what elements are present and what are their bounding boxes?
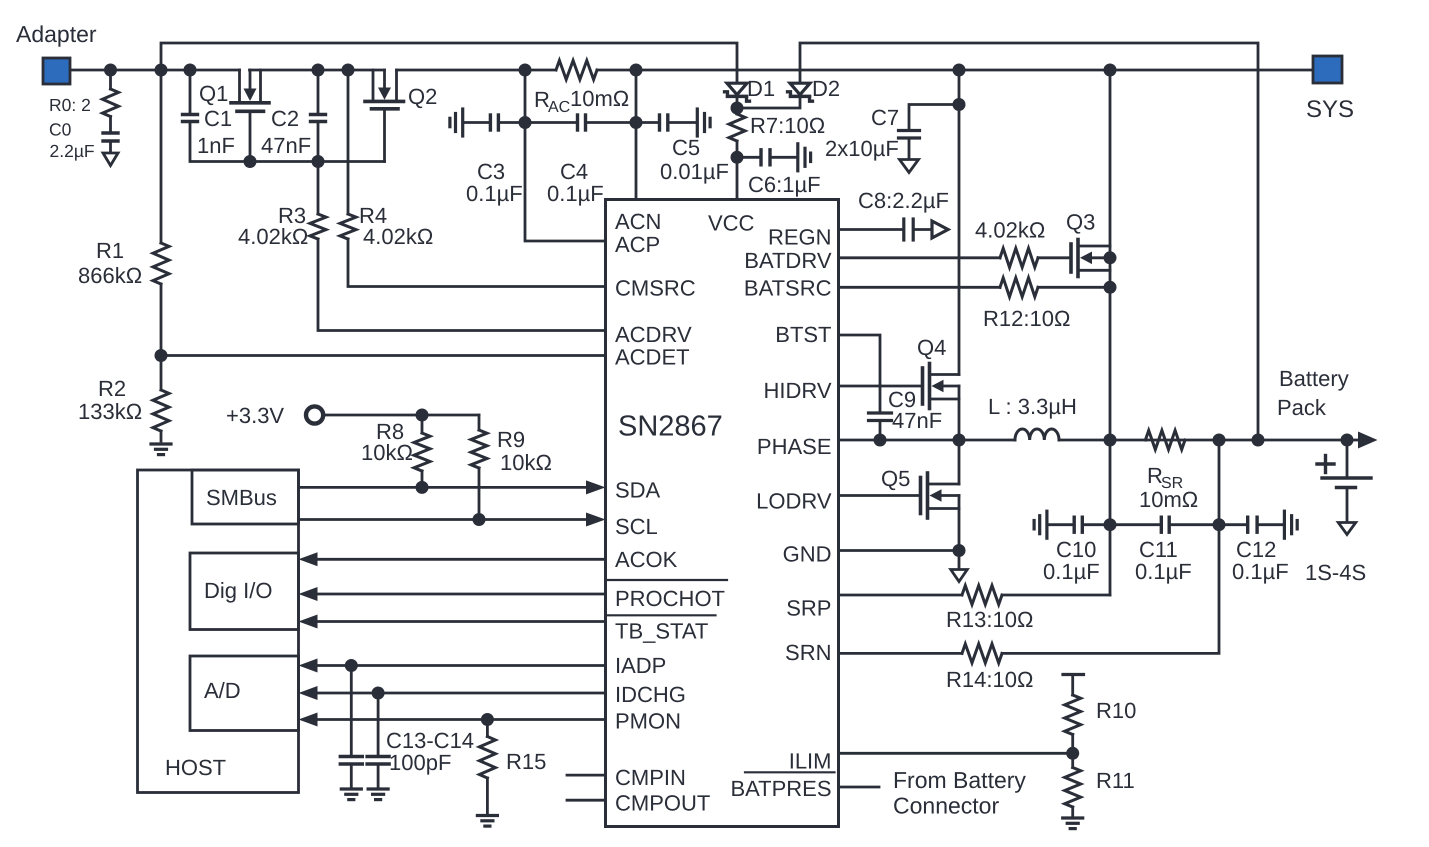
wire C3 node lead [500,121,525,124]
capacitor C1 [183,115,198,122]
resistor R11 [1065,753,1081,815]
wire C8 right lead [915,228,932,231]
resistor R15 [479,720,495,814]
label R8 value [361,440,413,465]
svg-text:C7: C7 [871,105,899,130]
node PHASE/Q4-Q5 [953,434,966,447]
wire Q4 source to PHASE [958,386,961,440]
wire Q3 column (bus to battery rail) [1109,70,1112,595]
wire Q2 to RAC (main bus segment 3) [397,69,557,72]
resistor R4 [340,214,356,239]
svg-text:C8:2.2µF: C8:2.2µF [858,188,949,213]
label 47nF [261,133,311,158]
transistor Q4 source stub [930,398,960,401]
pin label TB_STAT [615,619,708,644]
label D1 [747,76,775,101]
wire Q5 source to GND node [958,496,961,551]
node adapter/R0 [104,64,117,77]
wire R4 top lead [347,70,350,214]
capacitor C14 [367,693,389,787]
pin label PROCHOT [615,586,725,611]
svg-text:Adapter: Adapter [16,21,97,47]
transistor Q4 channel bar [928,364,932,409]
block Dig I/O [190,553,299,630]
label R0: 2 [49,95,91,115]
wire PMON net [299,713,606,727]
capacitor C10 [1074,517,1082,532]
arrow into SDA pin [586,480,606,494]
svg-text:R10: R10 [1096,698,1136,723]
resistor R10 [1063,675,1084,754]
label Q1 [199,81,228,106]
label C12 value [1232,559,1289,584]
ground (open arrow) power ground [951,570,968,582]
pin label ACDRV [615,322,692,347]
label C1 [204,106,232,131]
node IDCHG/C14 [372,687,385,700]
svg-text:AC: AC [548,99,570,116]
pin label IADP [615,653,666,678]
svg-text:ACN: ACN [615,209,661,234]
svg-text:TB_STAT: TB_STAT [615,619,708,644]
label C10 [1056,537,1096,562]
transistor Q2 drain contact [395,70,398,100]
svg-text:866kΩ: 866kΩ [78,263,142,288]
label Dig I/O [204,578,272,603]
svg-text:C2: C2 [271,106,299,131]
transistor Q3 channel bar [1076,240,1080,277]
svg-text:L : 3.3µH: L : 3.3µH [988,394,1077,419]
ground below C14 [368,789,388,800]
wire to Q3 gate [1038,256,1071,259]
svg-text:ACOK: ACOK [615,547,678,572]
capacitor C3 [490,115,498,130]
label 1nF [197,133,235,158]
svg-text:C1: C1 [204,106,232,131]
svg-text:10mΩ: 10mΩ [570,86,629,111]
transistor Q1 channel bar [231,101,269,105]
diode D2 [788,83,813,101]
svg-text:SDA: SDA [615,478,661,503]
svg-text:2x10µF: 2x10µF [825,136,899,161]
svg-text:Q3: Q3 [1066,210,1095,235]
node GND/Q5 source [953,544,966,557]
wire battery rail [1059,439,1347,442]
wire C7 branch [909,105,959,129]
svg-text:Pack: Pack [1277,395,1327,420]
wire PROCHOT net [299,587,606,601]
block A/D [190,656,299,731]
svg-text:From Battery: From Battery [893,767,1026,793]
svg-text:R7:10Ω: R7:10Ω [750,113,825,138]
resistor R0 [103,89,119,117]
label Q4 [917,335,946,360]
wire D2 cathode to D1 [737,96,800,108]
svg-text:R9: R9 [497,427,525,452]
svg-text:Q2: Q2 [408,84,437,109]
node R1/R2/ACDET [155,349,168,362]
label From Battery Connector [893,767,1026,819]
svg-text:0.1µF: 0.1µF [1135,559,1192,584]
svg-text:BTST: BTST [775,322,831,347]
wire C10 ground lead [1048,523,1073,526]
svg-text:LODRV: LODRV [756,489,832,514]
node rail/RSR right [1213,434,1226,447]
capacitor C6 [761,150,770,165]
transistor Q4 body arrow [932,380,960,393]
label C2 [271,106,299,131]
resistor 4.02k (Q3 gate) [1000,248,1038,267]
pin label ACN [615,209,661,234]
wire C2 bottom lead [317,123,320,162]
label C0 [49,120,72,140]
wire C2 top lead [317,70,320,112]
node rail/Q3 column [1104,434,1117,447]
svg-text:R12:10Ω: R12:10Ω [983,306,1070,331]
capacitor C8 [904,219,913,240]
wire BATPRES stub [839,786,880,789]
svg-text:Connector: Connector [893,793,999,819]
pin label CMSRC [615,276,696,301]
wire BATSRC lead [839,286,1001,289]
wire top bus right (SYS rail to D2 and battery rail) [800,43,1258,440]
node ILIM/R10/R11 [1066,747,1079,760]
label C11 value [1135,559,1192,584]
pin label CMPOUT [615,791,710,816]
resistor R8 [414,415,430,487]
svg-text:IDCHG: IDCHG [615,682,686,707]
label C4 value [547,181,604,206]
label R11 [1096,768,1135,793]
transistor Q5 gate bar [919,478,923,514]
transistor Q1 source contact [238,70,241,102]
wire R13 to sense node [1002,594,1110,597]
svg-text:Q5: Q5 [881,466,910,491]
label Q5 [881,466,910,491]
svg-text:VCC: VCC [708,211,755,236]
svg-text:4.02kΩ: 4.02kΩ [975,218,1045,243]
label C11 [1139,537,1178,562]
svg-text:1S-4S: 1S-4S [1305,560,1366,585]
node SDA/R8 [416,481,429,494]
label R2 [98,376,126,401]
label R9 value [500,450,552,475]
label Battery Pack [1277,366,1349,420]
node bus/ACP [519,64,532,77]
svg-text:0.1µF: 0.1µF [466,181,523,206]
capacitor C11 [1161,517,1169,532]
pin label SRP [786,596,831,621]
svg-text:CMSRC: CMSRC [615,276,696,301]
svg-text:133kΩ: 133kΩ [78,399,142,424]
svg-text:REGN: REGN [768,225,832,250]
pin label BATSRC [744,276,832,301]
svg-text:0.01µF: 0.01µF [660,159,729,184]
label C7 value [825,136,899,161]
wire ILIM lead [839,752,1073,755]
svg-text:BATPRES: BATPRES [730,776,831,801]
svg-text:CMPOUT: CMPOUT [615,791,710,816]
svg-text:0.1µF: 0.1µF [1043,559,1100,584]
svg-text:R14:10Ω: R14:10Ω [946,667,1033,692]
label R3 [278,203,306,228]
wire D1 cathode [736,96,739,108]
svg-text:4.02kΩ: 4.02kΩ [238,224,308,249]
svg-text:Q1: Q1 [199,81,228,106]
wire Q5 drain to PHASE [958,440,961,484]
svg-text:SRP: SRP [786,596,831,621]
svg-text:ILIM: ILIM [789,749,832,774]
ground below R15 [477,816,497,827]
wire R7 top lead [736,108,739,114]
svg-text:10kΩ: 10kΩ [500,450,552,475]
wire R3 top lead [317,162,320,215]
label 866k [78,263,142,288]
wire CMPIN stub [567,774,606,777]
pin label LODRV [756,489,832,514]
svg-text:R11: R11 [1096,768,1135,793]
node R7/C6/VCC [731,151,744,164]
transistor Q2 channel bar [365,100,404,104]
transistor Q1 body arrow [244,70,257,101]
label C13-C14 [386,728,474,753]
resistor R1 [153,243,169,284]
svg-text:SN2867: SN2867 [618,411,723,443]
svg-text:2.2µF: 2.2µF [50,141,95,161]
wire R12 to Q3 source [1038,286,1110,289]
wire LODRV lead [839,494,921,497]
svg-text:PHASE: PHASE [757,434,832,459]
ground (open arrow) below C7 [900,160,919,173]
label R13 value [946,607,1033,632]
svg-text:IADP: IADP [615,653,666,678]
wire C4 right lead [587,121,636,124]
node rail/Q1 [244,155,257,168]
diode D1 [725,83,750,101]
node rail/C2/R3 [312,155,325,168]
wire CMPOUT stub [567,799,606,802]
wire IADP net [299,659,606,673]
svg-text:Battery: Battery [1279,366,1349,391]
ground (rotated) for C10 [1034,511,1047,538]
wire R0 top lead [109,70,112,89]
label R10 [1096,698,1136,723]
resistor R2 [153,390,169,431]
wire ACDET net [161,354,606,357]
transistor Q2 body arrow [378,70,391,100]
wire REGN lead [839,228,903,231]
label C6 value [748,172,821,197]
wire C5 node lead [636,121,658,124]
label SN2867 [618,411,723,443]
svg-text:100pF: 100pF [389,750,451,775]
node +3.3V/R8 [416,409,429,422]
svg-text:Dig I/O: Dig I/O [204,578,272,603]
wire R7 bottom lead [736,141,739,157]
wire BTST lead [839,335,881,412]
pin label SDA [615,478,661,503]
svg-text:4.02kΩ: 4.02kΩ [363,224,433,249]
node IADP/C13 [345,659,358,672]
node bus/ACN [630,64,643,77]
label C12 [1236,537,1276,562]
svg-text:D1: D1 [747,76,775,101]
svg-text:C6:1µF: C6:1µF [748,172,821,197]
wire top bus left (adapter raw to D1/VCC) [161,43,737,83]
resistor R3 [310,214,326,239]
label +3.3V [226,403,284,428]
label R8 [376,419,404,444]
resistor R14 [962,644,1002,663]
label HOST [165,755,226,780]
wire C12 ground lead [1259,523,1283,526]
inductor L [1015,429,1059,440]
svg-text:ACDRV: ACDRV [615,322,692,347]
transistor Q1 drain contact [259,70,262,102]
svg-text:C0: C0 [49,120,72,140]
label A/D [204,678,241,703]
svg-text:PROCHOT: PROCHOT [615,586,725,611]
transistor Q4 gate bar [921,368,925,404]
pin label HIDRV [763,378,831,403]
pin label IDCHG [615,682,686,707]
label C5 [672,135,700,160]
wire ACP net vertical [525,70,606,241]
pin label SCL [615,514,658,539]
node Q3 source/BATSRC [1104,281,1117,294]
wire C0 bottom lead [109,143,112,154]
svg-text:HOST: HOST [165,755,226,780]
wire C1 top lead [189,70,192,112]
capacitor C7 [899,131,920,139]
label SYS [1306,96,1354,123]
wire VCC lead [736,157,739,199]
node bus/top-bus/R1 [155,64,168,77]
pin label BATPRES [730,776,831,801]
svg-text:BATSRC: BATSRC [744,276,832,301]
label C3 [477,159,505,184]
label Q2 [408,84,437,109]
svg-text:47nF: 47nF [892,408,942,433]
label D2 [812,76,840,101]
label 1S-4S [1305,560,1366,585]
pin label ILIM [789,749,832,774]
resistor R12 [1000,278,1038,297]
wire R2 bottom lead [160,431,163,441]
label 4.02k (Q3 gate) [975,218,1045,243]
label R7 value [750,113,825,138]
pin label PMON [615,709,681,734]
wire SRN lead [839,652,963,655]
ground (rotated) for C3 [450,109,463,136]
svg-text:0.1µF: 0.1µF [1232,559,1289,584]
ground (open arrow) below battery [1338,523,1356,535]
terminal +3.3V [306,406,323,423]
transistor Q5 channel bar [926,473,930,518]
label C13-C14 value [389,750,451,775]
block SMBus [192,470,299,524]
wire IDCHG net [299,686,606,700]
ground (rotated) for C6 [798,144,811,171]
wire TB_STAT net [299,615,606,629]
ground below R11 [1063,818,1083,829]
pin label PHASE [757,434,832,459]
pin label BATDRV [744,248,832,273]
label C8 value [858,188,949,213]
svg-text:+3.3V: +3.3V [226,403,284,428]
transistor Q5 drain stub [928,483,960,486]
node Q3 body [1104,251,1117,264]
block HOST [138,470,299,793]
svg-text:BATDRV: BATDRV [744,248,832,273]
wire adapter to Q1 source (main bus segment 1) [70,69,240,72]
wire C3 ground lead [464,121,489,124]
node C10/SRP sense [1104,518,1117,531]
label C9 [888,387,916,412]
ground below C13 [341,789,361,800]
transistor Q2 gate bar [372,107,399,111]
wire C10 node lead [1084,523,1110,526]
svg-text:SCL: SCL [615,514,658,539]
svg-text:R15: R15 [506,749,546,774]
transistor Q2 source contact [372,70,375,100]
wire R2 top lead [160,356,163,391]
wire C11 right lead [1170,523,1220,526]
op-amp U1 SN2867 body [606,200,839,827]
wire R4 to CMSRC [348,239,606,287]
transistor Q3 drain stub [1078,245,1110,248]
svg-text:A/D: A/D [204,678,241,703]
resistor R13 [962,586,1002,605]
svg-text:10kΩ: 10kΩ [361,440,413,465]
battery plus sign [1317,456,1334,473]
wire C11 left lead [1110,523,1159,526]
wire R3 to ACDRV [318,239,606,331]
node SCL/R9 [473,513,486,526]
wire Q2 gate to rail [383,110,386,162]
svg-text:GND: GND [783,542,832,567]
transistor Q5 source stub [928,507,960,510]
wire ACOK net [299,552,606,566]
label VCC (pin) [708,211,755,236]
overline PROCHOT [608,579,727,581]
capacitor C5 [660,115,668,130]
svg-text:R0: 2: R0: 2 [49,95,91,115]
wire C1 bottom lead + gate rail [190,123,385,162]
wire R14 to sense node [1002,440,1219,653]
label Q3 [1066,210,1095,235]
wire C12 left lead [1219,523,1246,526]
label C10 value [1043,559,1100,584]
wire C4 left lead [525,121,576,124]
resistor R9 [471,415,487,520]
label R4 value [363,224,433,249]
wire R1 top lead [160,70,163,243]
overline BATPRES [745,771,835,773]
node bus/C2 [312,64,325,77]
wire HIDRV lead [839,385,923,388]
node C9/PHASE [874,434,887,447]
svg-text:10mΩ: 10mΩ [1139,487,1198,512]
svg-text:Q4: Q4 [917,335,946,360]
wire +3.3V rail [323,414,479,417]
wire C5 ground lead [669,121,696,124]
label R14 value [946,667,1033,692]
wire R1-R2 lead [160,284,163,356]
node rail/battery [1341,434,1354,447]
label C7 [871,105,899,130]
label C4 [560,159,588,184]
